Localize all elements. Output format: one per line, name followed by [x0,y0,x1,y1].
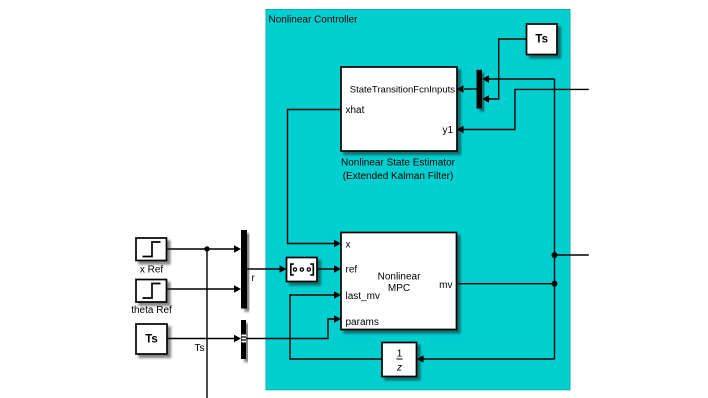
svg-text:Ts: Ts [195,343,205,354]
block: Nonlinear MPC [341,233,457,330]
block label: Nonlinear State Estimator (Extended Kalman Filter) [341,158,456,183]
wire: MPC mv output to feedback vertical [457,283,555,285]
svg-text:Ts: Ts [145,334,158,346]
wire: feedback bottom to unit delay input [417,355,555,363]
block: constant Ts (left) [136,324,167,354]
wire: branch from x Ref junction down off-screen [206,249,208,398]
svg-text:y1: y1 [442,125,453,136]
wire: unit delay output to MPC last_mv input [290,291,382,359]
block: Nonlinear State Estimator [341,67,457,151]
block: Step x Ref [136,238,167,261]
wire label: r [252,273,256,284]
svg-text:StateTransitionFcnInputs: StateTransitionFcnInputs [350,85,456,96]
wire: feedback vertical trunk [554,79,556,359]
svg-text:ref: ref [346,265,358,276]
wire: external output line right [555,254,589,256]
wire: external input to estimator y1 [457,89,589,133]
wire: Mux1 output r to vector block [247,265,287,273]
wire: Ts constant to Mux2 input [167,335,241,343]
svg-text:Nonlinear: Nonlinear [378,272,421,283]
svg-text:x Ref: x Ref [140,265,164,276]
svg-text:last_mv: last_mv [346,291,380,302]
svg-text:1: 1 [397,349,403,360]
wire: vector block to MPC ref input [317,265,341,273]
block: constant Ts (top) [527,24,558,55]
wire: x Ref output to Mux1 input 1 [167,245,242,253]
wire: Ts top constant to Mux3 input 2 [482,39,527,103]
svg-text:Nonlinear Controller: Nonlinear Controller [269,15,359,26]
area title: Nonlinear Controller [269,15,359,26]
block: vector concatenate [o o o] [287,258,318,282]
junction: x Ref wire branch [204,246,209,251]
svg-text:(Extended Kalman Filter): (Extended Kalman Filter) [343,171,454,182]
block: Mux1 (reference mux) [241,230,247,309]
wire label: Ts [195,343,205,354]
svg-text:Ts: Ts [535,34,548,46]
block: Mux2 (Ts mux) [241,320,246,359]
svg-text:MPC: MPC [388,283,410,294]
block label: theta Ref [131,305,172,316]
junction: mv to external tap [552,252,558,258]
junction: mv feedback tap [552,281,558,287]
svg-text:params: params [346,317,379,328]
wire: feedback top to Mux3 input 1 [482,75,555,83]
svg-text:z: z [396,363,402,374]
svg-text:theta Ref: theta Ref [131,305,172,316]
block label: x Ref [140,265,164,276]
svg-text:mv: mv [439,280,452,291]
area Nonlinear Controller [266,10,570,390]
svg-text:x: x [346,240,351,251]
block: Mux3 (estimator input mux) [477,70,483,109]
wire: Mux3 output to estimator StateTransitionFcnInputs input [457,85,477,93]
wire: estimator xhat output to MPC x input [288,110,342,248]
wire: theta Ref output to Mux1 input 2 [167,285,242,293]
block: unit delay 1/z [382,343,417,377]
svg-text:Nonlinear State Estimator: Nonlinear State Estimator [341,158,456,169]
block: Step theta Ref [136,280,167,303]
wire: Mux2 output to MPC params input [246,315,341,338]
svg-text:xhat: xhat [346,105,365,116]
svg-text:r: r [252,273,256,284]
